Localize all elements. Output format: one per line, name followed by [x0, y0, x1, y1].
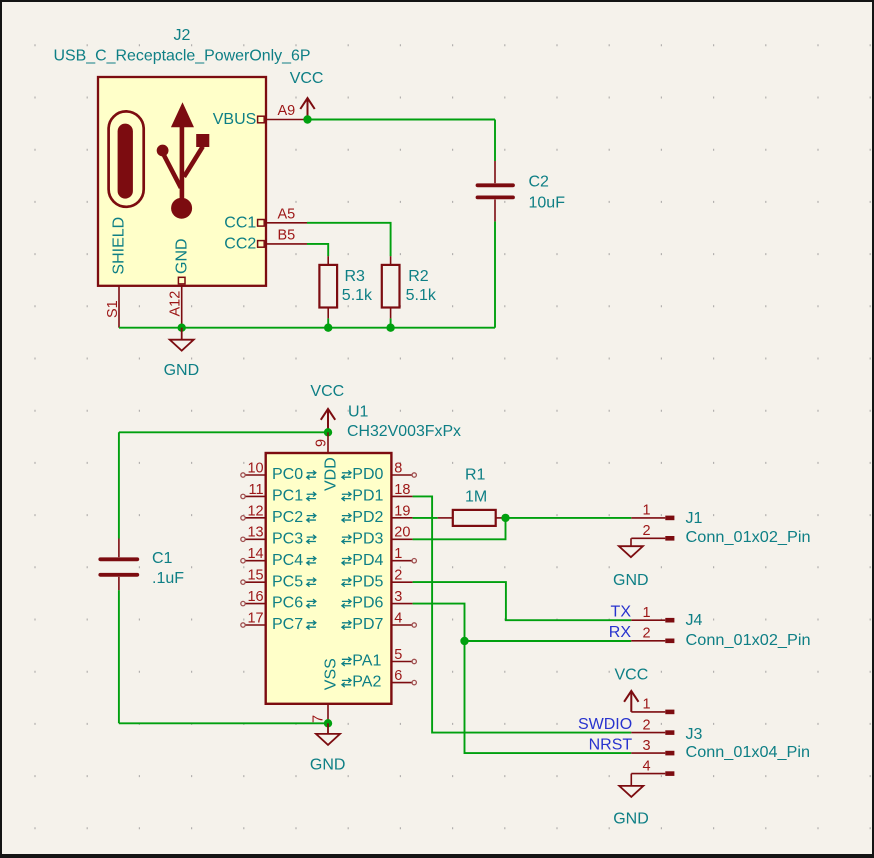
svg-text:2: 2	[642, 626, 650, 642]
svg-text:VCC: VCC	[310, 383, 344, 400]
wire PD3 to R1 output	[413, 518, 506, 539]
svg-text:R1: R1	[465, 467, 486, 484]
wire C1 bottom drop	[118, 590, 120, 723]
ground GND (under U1)	[310, 723, 346, 773]
svg-text:8: 8	[394, 460, 402, 476]
svg-text:PD0: PD0	[352, 466, 383, 483]
pin 10 PC0	[245, 474, 266, 476]
svg-text:J3: J3	[686, 726, 703, 743]
junction RX/NRST	[460, 637, 468, 645]
svg-text:14: 14	[247, 546, 263, 562]
junction A12/GND	[178, 324, 186, 332]
pin 16 PC6	[245, 603, 266, 605]
wire C1 top drop	[118, 432, 120, 538]
svg-text:S1: S1	[105, 300, 121, 318]
pin 13 PC3	[245, 538, 266, 540]
pin 1 (J3)	[631, 711, 665, 713]
svg-text:C2: C2	[529, 173, 550, 190]
svg-text:J2: J2	[174, 27, 191, 44]
svg-text:GND: GND	[164, 362, 200, 379]
svg-text:VSS: VSS	[322, 658, 339, 690]
svg-text:1: 1	[394, 546, 402, 562]
svg-text:Conn_01x04_Pin: Conn_01x04_Pin	[686, 744, 811, 761]
svg-text:20: 20	[394, 525, 410, 541]
svg-text:TX: TX	[611, 604, 632, 621]
svg-text:VCC: VCC	[290, 70, 324, 87]
svg-text:1M: 1M	[465, 489, 487, 506]
svg-text:.1uF: .1uF	[152, 570, 184, 587]
wire R1 to J1 pin1	[506, 517, 632, 519]
junction R3 bottom	[324, 324, 332, 332]
wire CC1 to R2	[307, 223, 391, 256]
junction U1 VDD	[324, 428, 332, 436]
svg-text:VDD: VDD	[322, 457, 339, 491]
power symbol VCC (top)	[290, 70, 324, 119]
ground GND (under J1)	[613, 538, 649, 589]
pin 3 PD6	[391, 603, 412, 605]
svg-text:GND: GND	[310, 756, 346, 773]
svg-text:16: 16	[247, 589, 263, 605]
svg-text:PC6: PC6	[272, 595, 303, 612]
svg-text:18: 18	[394, 482, 410, 498]
pin 6 PA2	[391, 682, 412, 684]
pin 9 VDD	[327, 432, 329, 453]
svg-text:PD7: PD7	[352, 616, 383, 633]
svg-text:3: 3	[642, 738, 650, 754]
svg-text:5.1k: 5.1k	[342, 287, 373, 304]
wire C2 top drop	[494, 120, 496, 162]
wire C2 bottom drop	[494, 221, 496, 327]
ground GND (under J3)	[613, 774, 649, 828]
J2 body	[98, 77, 266, 286]
USB trident icon	[157, 104, 210, 219]
junction U1 VSS	[324, 719, 332, 727]
svg-text:13: 13	[247, 525, 263, 541]
svg-text:4: 4	[642, 758, 650, 774]
svg-text:PC1: PC1	[272, 488, 303, 505]
pin B5 CC2	[266, 243, 307, 245]
pin A12 GND	[181, 286, 183, 328]
wire R3 bottom	[327, 318, 329, 327]
pin 15 PC5	[245, 581, 266, 583]
wire PD2 to R1	[413, 517, 438, 519]
junction VBUS/VCC	[303, 115, 311, 123]
svg-text:R2: R2	[408, 268, 429, 285]
svg-text:PD1: PD1	[352, 488, 383, 505]
USB-C receptacle icon	[109, 111, 144, 206]
pin 2 PD5	[391, 581, 412, 583]
svg-text:J1: J1	[686, 510, 703, 527]
resistor R3	[319, 256, 373, 318]
U1 body	[266, 453, 392, 704]
svg-text:Conn_01x02_Pin: Conn_01x02_Pin	[686, 632, 811, 649]
svg-text:PD6: PD6	[352, 595, 383, 612]
capacitor C2	[478, 161, 566, 221]
connector J2 USB_C_Receptacle_PowerOnly_6P	[54, 27, 311, 328]
svg-text:5.1k: 5.1k	[406, 287, 437, 304]
svg-text:PA1: PA1	[352, 653, 381, 670]
svg-text:PC4: PC4	[272, 552, 303, 569]
svg-text:B5: B5	[278, 227, 296, 243]
wire R2 bottom	[390, 318, 392, 327]
svg-text:10: 10	[247, 460, 263, 476]
svg-text:17: 17	[247, 610, 263, 626]
pin 12 PC2	[245, 517, 266, 519]
pin 18 PD1	[391, 495, 412, 497]
pin 19 PD2	[391, 517, 412, 519]
svg-text:CC2: CC2	[224, 235, 256, 252]
svg-text:U1: U1	[348, 404, 369, 421]
svg-text:VCC: VCC	[615, 666, 649, 683]
svg-text:2: 2	[394, 568, 402, 584]
svg-text:GND: GND	[173, 238, 190, 274]
svg-text:GND: GND	[613, 811, 649, 828]
connector J1 Conn_01x02_Pin	[631, 503, 810, 546]
wire PD1 to SWDIO	[413, 496, 632, 732]
svg-text:9: 9	[313, 439, 329, 447]
svg-text:3: 3	[394, 589, 402, 605]
svg-text:RX: RX	[609, 624, 632, 641]
svg-text:A5: A5	[278, 206, 296, 222]
svg-text:USB_C_Receptacle_PowerOnly_6P: USB_C_Receptacle_PowerOnly_6P	[54, 48, 311, 65]
svg-text:19: 19	[394, 503, 410, 519]
svg-text:5: 5	[394, 647, 402, 663]
svg-text:SWDIO: SWDIO	[578, 716, 632, 733]
svg-text:C1: C1	[152, 550, 173, 567]
pin A9 VBUS	[266, 119, 307, 121]
svg-text:12: 12	[247, 503, 263, 519]
pin 2 (J3)	[631, 732, 665, 734]
svg-text:PD5: PD5	[352, 573, 383, 590]
pin 7 VSS	[327, 704, 329, 724]
pin S1 SHIELD	[118, 286, 120, 328]
svg-text:2: 2	[642, 717, 650, 733]
svg-text:PA2: PA2	[352, 674, 381, 691]
svg-text:1: 1	[642, 605, 650, 621]
svg-text:4: 4	[394, 610, 402, 626]
svg-text:A9: A9	[278, 103, 296, 119]
svg-text:PC2: PC2	[272, 509, 303, 526]
svg-text:PC0: PC0	[272, 466, 303, 483]
svg-text:PC5: PC5	[272, 573, 303, 590]
power symbol VCC (at J3)	[615, 666, 649, 712]
pin 5 PA1	[391, 661, 412, 663]
pin 20 PD3	[391, 538, 412, 540]
svg-text:PD3: PD3	[352, 530, 383, 547]
pin 1 (J1)	[631, 517, 665, 519]
wire RX branch to NRST	[465, 641, 632, 753]
svg-text:PC3: PC3	[272, 530, 303, 547]
capacitor C1	[100, 539, 184, 591]
svg-text:2: 2	[642, 523, 650, 539]
pin A5 CC1	[266, 222, 307, 224]
svg-text:VBUS: VBUS	[213, 111, 257, 128]
svg-text:PD4: PD4	[352, 552, 383, 569]
ic U1 CH32V003FxPx	[241, 404, 461, 724]
junction R1 output	[501, 514, 509, 522]
svg-text:A12: A12	[168, 291, 184, 317]
wire CC2 to R3	[307, 244, 328, 256]
resistor R2	[382, 256, 437, 318]
wire C1 to VSS	[119, 722, 328, 724]
pin 11 PC1	[245, 495, 266, 497]
junction R2 bottom	[386, 324, 394, 332]
svg-text:CC1: CC1	[224, 214, 256, 231]
pin 4 PD7	[391, 624, 412, 626]
wire VBUS to C2	[307, 119, 495, 121]
pin 1 (J4)	[631, 619, 665, 621]
svg-text:PD2: PD2	[352, 509, 383, 526]
svg-text:15: 15	[247, 568, 263, 584]
pin 2 (J4)	[631, 640, 665, 642]
svg-text:1: 1	[642, 697, 650, 713]
pin 4 (J3)	[631, 773, 665, 775]
wire GND bus bottom of J2	[119, 327, 495, 329]
wire VCC to C1	[119, 431, 328, 433]
pin 3 (J3)	[631, 752, 665, 754]
pin 14 PC4	[245, 560, 266, 562]
svg-text:J4: J4	[686, 612, 703, 629]
wire PD6 to RX	[413, 604, 632, 641]
svg-text:1: 1	[642, 503, 650, 519]
svg-text:10uF: 10uF	[529, 195, 566, 212]
ground GND (under J2)	[164, 328, 200, 380]
connector J3 Conn_01x04_Pin	[631, 697, 810, 776]
svg-text:PC7: PC7	[272, 616, 303, 633]
svg-text:Conn_01x02_Pin: Conn_01x02_Pin	[686, 529, 811, 546]
power symbol VCC (at U1)	[310, 383, 344, 432]
svg-text:NRST: NRST	[589, 737, 633, 754]
svg-text:6: 6	[394, 668, 402, 684]
svg-text:R3: R3	[345, 268, 366, 285]
svg-text:SHIELD: SHIELD	[111, 217, 128, 275]
connector J4 Conn_01x02_Pin	[631, 605, 810, 649]
pin 17 PC7	[245, 624, 266, 626]
wire PD5 to TX	[413, 582, 632, 620]
svg-text:11: 11	[249, 482, 264, 498]
svg-text:GND: GND	[613, 572, 649, 589]
resistor R1	[438, 467, 506, 526]
pin 1 PD4	[391, 560, 412, 562]
svg-text:CH32V003FxPx: CH32V003FxPx	[347, 423, 461, 440]
pin 2 (J1)	[631, 537, 665, 539]
pin 8 PD0	[391, 474, 412, 476]
